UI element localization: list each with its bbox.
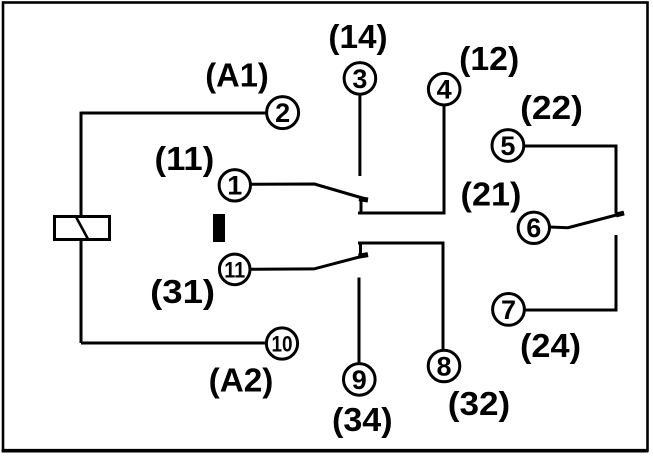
contact arm from pin 6 bbox=[550, 213, 625, 228]
contact arm from pin 1 bbox=[250, 184, 368, 200]
svg-text:6: 6 bbox=[526, 213, 541, 243]
top contact stub (14 NC point) bbox=[360, 199, 363, 215]
svg-text:11: 11 bbox=[224, 257, 245, 282]
svg-text:1: 1 bbox=[227, 171, 242, 201]
svg-text:(14): (14) bbox=[328, 18, 387, 55]
wire pin 5 horizontal and right drop bbox=[524, 146, 616, 214]
svg-text:5: 5 bbox=[500, 131, 515, 161]
contact arm from pin 11 bbox=[251, 255, 367, 269]
contact arm tip blob (pin 1) bbox=[359, 199, 368, 200]
pin 4 bbox=[428, 73, 460, 105]
armature bar bbox=[213, 214, 225, 242]
pin 7 bbox=[493, 294, 525, 326]
wire right lower vertical to pin 7 bbox=[525, 235, 616, 310]
contact arm tip blob (pin 11) bbox=[359, 255, 369, 257]
wire pin 8 vertical and bottom contact bus bbox=[358, 243, 443, 353]
pin 9 bbox=[344, 364, 376, 396]
wire pin 4 vertical and top contact bus bbox=[358, 105, 444, 214]
svg-text:10: 10 bbox=[272, 331, 293, 356]
wire coil bottom vertical bbox=[80, 241, 83, 343]
wire A2 horizontal to pin 10 bbox=[81, 342, 267, 345]
svg-text:(A1): (A1) bbox=[205, 57, 269, 94]
contact arm tip blob (pin 6) bbox=[616, 213, 624, 215]
relay coil K1 bbox=[55, 216, 110, 240]
pin 6 bbox=[518, 212, 549, 243]
pin 3 bbox=[344, 63, 376, 95]
bottom contact stub (31 point) bbox=[359, 242, 362, 258]
svg-text:2: 2 bbox=[275, 98, 290, 128]
wire pin 3 vertical bbox=[358, 95, 361, 177]
pin 11 bbox=[219, 254, 250, 285]
wire coil top vertical bbox=[80, 112, 83, 216]
svg-text:8: 8 bbox=[436, 351, 451, 381]
svg-text:(34): (34) bbox=[332, 401, 393, 438]
wire A1 horizontal to pin 2 bbox=[81, 112, 267, 115]
svg-text:9: 9 bbox=[352, 365, 367, 395]
pin 5 bbox=[492, 130, 524, 162]
pin 2 bbox=[267, 97, 299, 129]
wire pin 9 vertical bbox=[358, 278, 361, 366]
svg-text:(21): (21) bbox=[461, 176, 522, 213]
svg-text:(22): (22) bbox=[520, 89, 583, 126]
pin 10 bbox=[266, 328, 297, 359]
svg-text:(32): (32) bbox=[448, 385, 510, 422]
pin 8 bbox=[428, 350, 460, 382]
svg-text:3: 3 bbox=[352, 64, 367, 94]
svg-text:4: 4 bbox=[437, 75, 452, 105]
svg-text:(31): (31) bbox=[150, 273, 215, 310]
svg-text:(12): (12) bbox=[459, 40, 519, 77]
svg-text:7: 7 bbox=[501, 295, 516, 325]
pin 1 bbox=[219, 170, 250, 201]
svg-text:(A2): (A2) bbox=[209, 361, 274, 398]
svg-text:(24): (24) bbox=[520, 327, 581, 364]
svg-text:(11): (11) bbox=[155, 140, 215, 177]
